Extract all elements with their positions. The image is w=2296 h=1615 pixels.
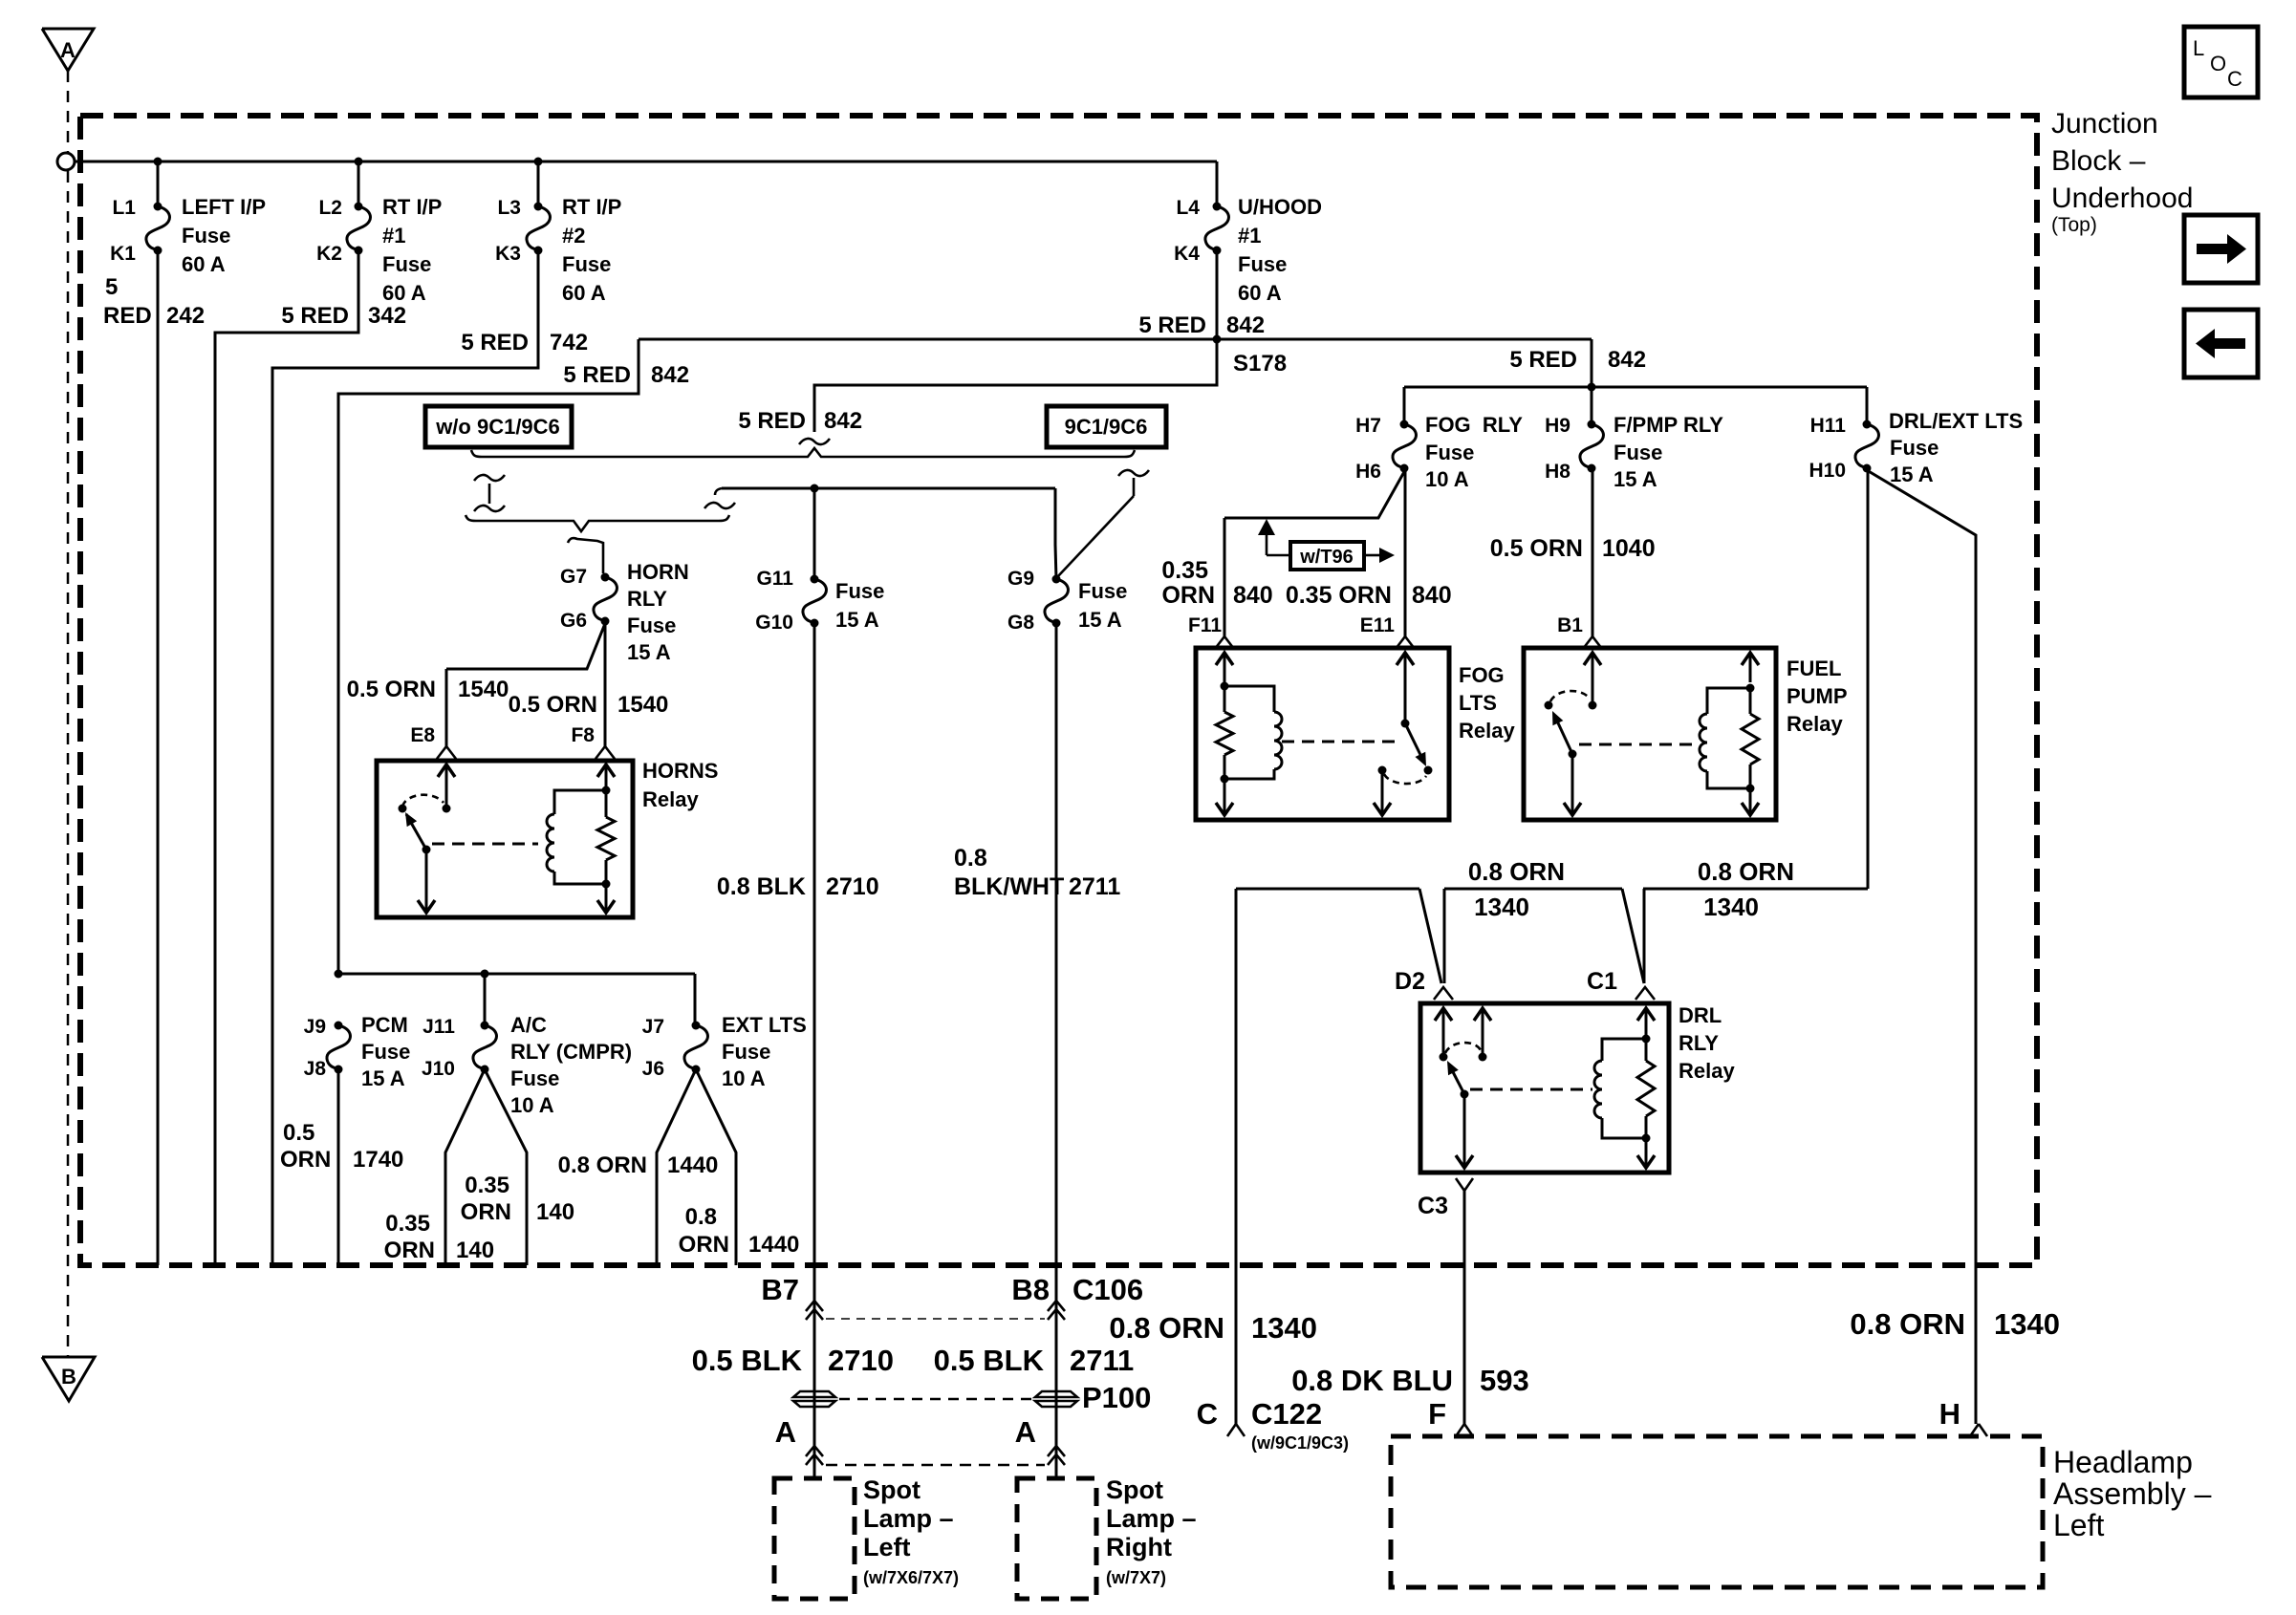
svg-text:H11: H11 <box>1810 415 1847 437</box>
svg-text:242: 242 <box>166 303 205 329</box>
svg-text:0.8 ORN: 0.8 ORN <box>1850 1307 1965 1341</box>
svg-text:140: 140 <box>456 1238 494 1263</box>
svg-text:Fuse: Fuse <box>562 252 611 276</box>
svg-text:9C1/9C6: 9C1/9C6 <box>1065 415 1148 439</box>
svg-text:0.5 ORN: 0.5 ORN <box>1490 535 1583 562</box>
svg-text:Lamp –: Lamp – <box>863 1504 954 1533</box>
svg-text:C: C <box>1197 1397 1218 1431</box>
svg-text:F8: F8 <box>571 724 595 746</box>
svg-text:0.8 ORN: 0.8 ORN <box>558 1152 647 1178</box>
svg-text:0.8 ORN: 0.8 ORN <box>1468 857 1565 886</box>
svg-text:Assembly –: Assembly – <box>2053 1476 2212 1511</box>
svg-text:Lamp –: Lamp – <box>1106 1504 1197 1533</box>
svg-text:K4: K4 <box>1174 243 1200 265</box>
svg-text:Fuse: Fuse <box>1425 441 1474 464</box>
svg-text:Spot: Spot <box>1106 1475 1163 1504</box>
svg-text:10 A: 10 A <box>1425 467 1469 491</box>
svg-text:1540: 1540 <box>617 692 668 718</box>
svg-text:EXT LTS: EXT LTS <box>722 1013 807 1037</box>
svg-text:C1: C1 <box>1587 968 1617 995</box>
svg-text:840: 840 <box>1233 582 1273 609</box>
svg-text:1340: 1340 <box>1474 893 1529 921</box>
svg-text:#1: #1 <box>382 224 405 248</box>
svg-text:0.8 DK BLU: 0.8 DK BLU <box>1291 1364 1453 1397</box>
svg-text:1740: 1740 <box>353 1147 403 1173</box>
svg-text:G7: G7 <box>560 566 587 588</box>
svg-text:S178: S178 <box>1233 351 1287 377</box>
svg-text:DRL: DRL <box>1679 1003 1722 1027</box>
svg-text:H9: H9 <box>1545 415 1570 437</box>
svg-text:H7: H7 <box>1355 415 1381 437</box>
svg-text:BLK/WHT: BLK/WHT <box>954 873 1064 900</box>
svg-text:F: F <box>1428 1397 1446 1431</box>
svg-text:15 A: 15 A <box>835 608 879 632</box>
svg-text:FUEL: FUEL <box>1787 657 1841 680</box>
svg-text:0.5 ORN: 0.5 ORN <box>347 677 436 702</box>
svg-text:RLY (CMPR): RLY (CMPR) <box>510 1040 632 1064</box>
svg-text:10 A: 10 A <box>722 1066 766 1090</box>
svg-text:H6: H6 <box>1355 461 1381 483</box>
svg-text:842: 842 <box>1226 312 1265 338</box>
svg-text:G9: G9 <box>1007 568 1034 590</box>
svg-text:FOG: FOG <box>1459 663 1505 687</box>
svg-text:RLY: RLY <box>1679 1031 1719 1055</box>
svg-text:(w/7X7): (w/7X7) <box>1106 1568 1166 1587</box>
svg-text:0.8 ORN: 0.8 ORN <box>1109 1311 1224 1345</box>
svg-text:#1: #1 <box>1238 224 1261 248</box>
svg-text:0.5: 0.5 <box>283 1120 314 1146</box>
svg-text:G11: G11 <box>756 568 793 590</box>
svg-text:DRL/EXT LTS: DRL/EXT LTS <box>1889 409 2023 433</box>
svg-text:L3: L3 <box>497 197 521 219</box>
svg-text:G10: G10 <box>755 612 793 634</box>
svg-text:5 RED: 5 RED <box>1138 312 1206 338</box>
svg-text:Relay: Relay <box>1679 1059 1735 1083</box>
svg-text:5 RED: 5 RED <box>563 362 631 388</box>
svg-text:C: C <box>2227 67 2242 91</box>
svg-text:H: H <box>1939 1397 1960 1431</box>
svg-text:1340: 1340 <box>1251 1311 1317 1345</box>
svg-text:Left: Left <box>2053 1508 2104 1542</box>
svg-text:E11: E11 <box>1360 614 1396 636</box>
svg-text:O: O <box>2210 52 2226 75</box>
svg-text:Fuse: Fuse <box>510 1066 559 1090</box>
svg-text:2711: 2711 <box>1069 873 1120 900</box>
svg-text:ORN: ORN <box>679 1232 729 1258</box>
svg-text:(Top): (Top) <box>2051 214 2097 236</box>
svg-text:HORN: HORN <box>627 560 689 584</box>
svg-text:L: L <box>2193 36 2204 60</box>
svg-text:B1: B1 <box>1557 614 1583 636</box>
svg-text:0.8 ORN: 0.8 ORN <box>1698 857 1794 886</box>
svg-text:5 RED: 5 RED <box>461 330 529 355</box>
svg-text:E8: E8 <box>410 724 435 746</box>
svg-text:Underhood: Underhood <box>2051 183 2193 214</box>
svg-text:60 A: 60 A <box>182 252 226 276</box>
svg-text:G6: G6 <box>560 610 587 632</box>
svg-text:15 A: 15 A <box>1078 608 1122 632</box>
svg-text:593: 593 <box>1480 1364 1529 1397</box>
svg-text:P100: P100 <box>1082 1381 1151 1414</box>
svg-text:C3: C3 <box>1418 1193 1448 1219</box>
svg-text:C106: C106 <box>1072 1273 1143 1306</box>
svg-text:ORN: ORN <box>461 1199 511 1225</box>
svg-text:0.5 BLK: 0.5 BLK <box>692 1344 803 1377</box>
svg-text:Fuse: Fuse <box>1238 252 1287 276</box>
svg-text:A/C: A/C <box>510 1013 547 1037</box>
svg-text:Fuse: Fuse <box>1890 436 1939 460</box>
svg-text:Fuse: Fuse <box>627 614 676 637</box>
svg-text:J9: J9 <box>304 1016 326 1038</box>
svg-text:842: 842 <box>1608 347 1646 373</box>
svg-text:1340: 1340 <box>1994 1307 2060 1341</box>
svg-text:(w/7X6/7X7): (w/7X6/7X7) <box>863 1568 959 1587</box>
svg-text:w/o 9C1/9C6: w/o 9C1/9C6 <box>435 415 560 439</box>
svg-text:2710: 2710 <box>828 1344 894 1377</box>
svg-text:15 A: 15 A <box>627 640 671 664</box>
svg-text:B: B <box>61 1365 76 1389</box>
svg-text:Block –: Block – <box>2051 145 2146 177</box>
svg-text:Relay: Relay <box>1787 712 1843 736</box>
svg-text:5: 5 <box>105 274 118 300</box>
svg-text:J6: J6 <box>642 1058 664 1080</box>
svg-text:0.35: 0.35 <box>1161 557 1208 584</box>
svg-text:Relay: Relay <box>1459 719 1515 743</box>
svg-text:LTS: LTS <box>1459 691 1497 715</box>
svg-text:Fuse: Fuse <box>835 579 884 603</box>
svg-text:5 RED: 5 RED <box>738 408 806 434</box>
svg-text:G8: G8 <box>1007 612 1034 634</box>
svg-text:PUMP: PUMP <box>1787 684 1848 708</box>
svg-text:0.35: 0.35 <box>465 1173 509 1198</box>
svg-text:L1: L1 <box>112 197 136 219</box>
svg-text:B7: B7 <box>761 1273 799 1306</box>
svg-text:C122: C122 <box>1251 1397 1322 1431</box>
svg-text:B8: B8 <box>1011 1273 1050 1306</box>
svg-text:D2: D2 <box>1395 968 1425 995</box>
svg-text:F11: F11 <box>1188 614 1222 636</box>
svg-text:60 A: 60 A <box>562 281 606 305</box>
svg-text:0.8: 0.8 <box>954 845 987 872</box>
svg-text:1540: 1540 <box>458 677 509 702</box>
svg-text:5 RED: 5 RED <box>281 303 349 329</box>
svg-text:J10: J10 <box>422 1058 455 1080</box>
svg-text:L4: L4 <box>1176 197 1200 219</box>
svg-text:w/T96: w/T96 <box>1299 547 1354 568</box>
svg-text:Fuse: Fuse <box>722 1040 770 1064</box>
svg-text:H8: H8 <box>1545 461 1570 483</box>
svg-text:RT I/P: RT I/P <box>382 195 442 219</box>
svg-text:840: 840 <box>1412 582 1452 609</box>
svg-text:Headlamp: Headlamp <box>2053 1445 2193 1479</box>
svg-text:15 A: 15 A <box>361 1066 405 1090</box>
svg-text:842: 842 <box>651 362 689 388</box>
svg-text:1040: 1040 <box>1602 535 1656 562</box>
svg-text:RED: RED <box>103 303 152 329</box>
svg-text:J7: J7 <box>642 1016 664 1038</box>
svg-text:ORN: ORN <box>384 1238 435 1263</box>
svg-text:J8: J8 <box>304 1058 327 1080</box>
svg-text:342: 342 <box>368 303 406 329</box>
svg-text:140: 140 <box>536 1199 574 1225</box>
svg-text:K2: K2 <box>316 243 342 265</box>
svg-text:15 A: 15 A <box>1890 463 1934 486</box>
svg-text:Fuse: Fuse <box>182 224 230 248</box>
svg-text:(w/9C1/9C3): (w/9C1/9C3) <box>1251 1433 1349 1453</box>
svg-text:1440: 1440 <box>748 1232 799 1258</box>
svg-text:0.5 BLK: 0.5 BLK <box>934 1344 1045 1377</box>
svg-text:A: A <box>60 38 76 62</box>
svg-text:Fuse: Fuse <box>382 252 431 276</box>
svg-text:0.5 ORN: 0.5 ORN <box>509 692 597 718</box>
svg-text:K3: K3 <box>495 243 521 265</box>
svg-text:0.8 BLK: 0.8 BLK <box>717 873 806 900</box>
svg-text:ORN: ORN <box>1161 582 1215 609</box>
svg-text:10 A: 10 A <box>510 1093 554 1117</box>
svg-text:L2: L2 <box>318 197 342 219</box>
svg-text:F/PMP RLY: F/PMP RLY <box>1614 413 1723 437</box>
svg-text:HORNS: HORNS <box>642 759 718 783</box>
svg-text:5 RED: 5 RED <box>1509 347 1577 373</box>
svg-text:15 A: 15 A <box>1614 467 1657 491</box>
svg-text:K1: K1 <box>110 243 136 265</box>
svg-text:J11: J11 <box>422 1016 455 1038</box>
svg-text:Spot: Spot <box>863 1475 921 1504</box>
svg-text:Junction: Junction <box>2051 108 2158 140</box>
svg-text:742: 742 <box>550 330 588 355</box>
svg-text:PCM: PCM <box>361 1013 408 1037</box>
svg-text:1440: 1440 <box>667 1152 718 1178</box>
svg-text:60 A: 60 A <box>1238 281 1282 305</box>
svg-text:U/HOOD: U/HOOD <box>1238 195 1322 219</box>
svg-text:Right: Right <box>1106 1533 1172 1561</box>
svg-text:2710: 2710 <box>826 873 879 900</box>
svg-text:A: A <box>775 1415 796 1449</box>
svg-text:0.8: 0.8 <box>685 1204 717 1230</box>
svg-text:A: A <box>1015 1415 1036 1449</box>
svg-text:0.35 ORN: 0.35 ORN <box>1286 582 1392 609</box>
svg-text:Fuse: Fuse <box>1614 441 1662 464</box>
svg-text:Fuse: Fuse <box>361 1040 410 1064</box>
svg-text:H10: H10 <box>1809 460 1846 482</box>
svg-text:842: 842 <box>824 408 862 434</box>
svg-text:ORN: ORN <box>280 1147 331 1173</box>
svg-text:1340: 1340 <box>1703 893 1759 921</box>
svg-text:LEFT I/P: LEFT I/P <box>182 195 266 219</box>
svg-text:RT I/P: RT I/P <box>562 195 621 219</box>
svg-text:Left: Left <box>863 1533 911 1561</box>
svg-text:FOG RLY: FOG RLY <box>1425 413 1523 437</box>
svg-text:60 A: 60 A <box>382 281 426 305</box>
svg-text:2711: 2711 <box>1070 1344 1134 1377</box>
svg-text:RLY: RLY <box>627 587 667 611</box>
svg-text:Fuse: Fuse <box>1078 579 1127 603</box>
svg-text:0.35: 0.35 <box>385 1211 430 1237</box>
svg-text:Relay: Relay <box>642 787 699 811</box>
svg-text:#2: #2 <box>562 224 585 248</box>
